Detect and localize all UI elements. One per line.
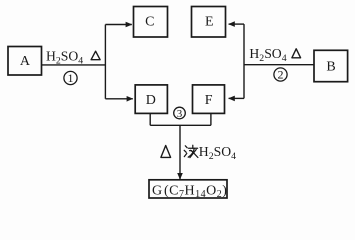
svg-text:B: B xyxy=(326,60,335,75)
svg-text:D: D xyxy=(146,93,156,108)
circled 1 xyxy=(64,71,77,85)
svg-text:H2SO4: H2SO4 xyxy=(199,144,236,162)
svg-text:E: E xyxy=(205,15,214,30)
arrow into F xyxy=(229,97,244,99)
svg-text:A: A xyxy=(20,54,31,69)
label delta left xyxy=(91,51,100,60)
box F xyxy=(193,85,225,114)
arrow into D xyxy=(105,98,132,100)
label delta right xyxy=(292,49,301,58)
box D xyxy=(135,85,167,114)
hanzi nong (concentrated) xyxy=(184,145,198,157)
arrow into C xyxy=(105,24,131,26)
box G xyxy=(149,180,227,198)
label delta bottom xyxy=(161,146,171,158)
box A xyxy=(8,47,42,76)
svg-text:H2SO4: H2SO4 xyxy=(249,46,286,64)
box C xyxy=(134,7,168,38)
wire F down xyxy=(210,113,212,125)
svg-text:C: C xyxy=(145,15,154,30)
wire merge horizontal xyxy=(150,124,211,126)
svg-text:3: 3 xyxy=(177,108,183,120)
wire right branch vertical xyxy=(243,24,245,98)
wire B to right branch xyxy=(244,64,314,66)
circled 3 xyxy=(174,107,186,120)
svg-text:G(C7H14O2): G(C7H14O2) xyxy=(152,183,227,200)
box B xyxy=(314,50,348,81)
wire left branch vertical xyxy=(104,25,106,99)
circled 2 xyxy=(274,68,287,82)
box E xyxy=(192,7,226,38)
svg-text:2: 2 xyxy=(278,68,284,82)
arrow into E xyxy=(229,23,244,25)
arrow into G xyxy=(179,125,181,179)
wire A to left branch xyxy=(42,64,106,66)
wire D down xyxy=(149,113,151,125)
svg-text:1: 1 xyxy=(68,71,74,85)
svg-text:H2SO4: H2SO4 xyxy=(46,48,83,66)
svg-text:F: F xyxy=(205,93,213,108)
